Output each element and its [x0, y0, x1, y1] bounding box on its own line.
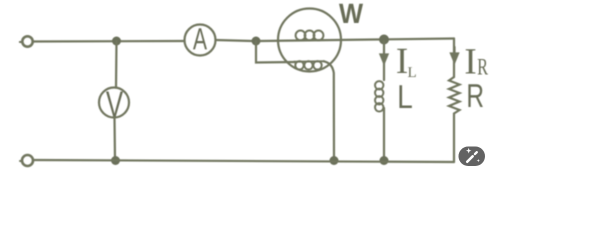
- wire R branch upper: [453, 39, 455, 78]
- wire bottom rail: [33, 160, 454, 162]
- label IL: [397, 49, 407, 73]
- label IL subscript: [408, 67, 416, 77]
- ui wand icon: [467, 156, 473, 162]
- wattmeter W1 current coil: [296, 31, 324, 41]
- wire L branch lower: [383, 108, 385, 160]
- voltmeter V1 letter: [106, 92, 123, 117]
- wire ammeter to wattmeter tap: [216, 40, 253, 41]
- wire R branch lower: [453, 114, 455, 163]
- terminal top-left stub: [20, 41, 22, 43]
- wire pressure coil lead left: [256, 41, 295, 63]
- label L value: [399, 85, 411, 108]
- wire voltmeter branch upper: [115, 41, 118, 88]
- node junction J3 (L branch tap, top): [379, 35, 389, 45]
- voltmeter V1 circle: [99, 88, 129, 118]
- ui pill button: [459, 147, 486, 167]
- wattmeter W1 circle: [278, 9, 341, 72]
- node junction J5 (voltmeter tap, bottom): [111, 156, 120, 165]
- resistor R zigzag: [449, 77, 460, 114]
- node junction J4 (L branch, bottom): [380, 156, 389, 165]
- node junction J2 (wattmeter pressure-coil tap): [252, 37, 261, 46]
- wire main through wattmeter to right corner: [260, 39, 454, 42]
- arrow current IL: [381, 54, 388, 63]
- wattmeter W1 pressure coil: [294, 61, 324, 69]
- inductor L coil: [375, 81, 383, 111]
- wire pressure coil lead right down: [324, 61, 334, 160]
- label R value: [468, 84, 483, 107]
- wire voltmeter branch lower: [113, 118, 116, 161]
- label IR: [466, 49, 476, 73]
- terminal bottom-left: [22, 155, 33, 166]
- wire L branch upper: [383, 41, 385, 80]
- node junction J6 (pressure coil to bottom rail): [330, 156, 339, 165]
- arrow current IR: [451, 47, 458, 62]
- wire top rail left: [33, 40, 185, 43]
- ammeter A1 letter: [193, 28, 207, 49]
- terminal top-left: [22, 36, 32, 46]
- label IR subscript: [478, 59, 488, 75]
- terminal bottom-left stub: [20, 160, 22, 162]
- node junction J1 (voltmeter tap, top): [112, 37, 121, 46]
- wattmeter W1 label: [339, 4, 363, 23]
- ammeter A1 circle: [185, 25, 216, 56]
